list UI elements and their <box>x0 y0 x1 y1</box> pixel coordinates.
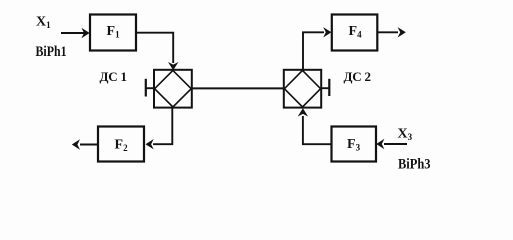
mixer DC2 right stub wire <box>321 87 329 89</box>
svg-text:BiPh1: BiPh1 <box>36 44 67 60</box>
mixer DC1 left stub wire <box>146 87 154 89</box>
mixer DC1 diamond <box>155 70 192 107</box>
mixer DC2 right terminal bar <box>328 79 330 96</box>
wire F1 output to mixer DC1 top <box>136 33 178 70</box>
mixer DC2 diamond <box>284 70 320 107</box>
mixer DC2 square <box>284 70 321 108</box>
wire X1 input arrow into F1 <box>61 28 90 38</box>
svg-text:BiPh3: BiPh3 <box>398 156 431 172</box>
svg-text:ДС 1: ДС 1 <box>100 69 127 84</box>
node BiPh3 label <box>398 156 431 172</box>
wire X3 input arrow into F3 <box>376 139 407 149</box>
wire F4 output arrow <box>377 27 406 37</box>
block F4 <box>332 15 378 51</box>
label DC 2 <box>344 69 371 84</box>
node X1 label <box>36 15 51 31</box>
block F3 <box>332 127 377 162</box>
wire mixer DC1 bottom to F2 <box>146 108 173 150</box>
block F2 <box>98 127 144 162</box>
wire F2 output arrow <box>72 139 98 149</box>
wire mixer DC2 top to F4 <box>303 27 331 70</box>
mixer DC1 left terminal bar <box>145 79 147 97</box>
svg-text:ДС 2: ДС 2 <box>344 69 371 84</box>
node X3 label <box>398 127 413 143</box>
node BiPh1 label <box>36 44 67 60</box>
label DC 1 <box>100 69 127 84</box>
wire mixer DC1 to mixer DC2 <box>192 87 284 89</box>
mixer DC1 square <box>154 70 192 108</box>
wire F3 to mixer DC2 bottom <box>298 108 332 144</box>
block F1 <box>90 15 136 51</box>
